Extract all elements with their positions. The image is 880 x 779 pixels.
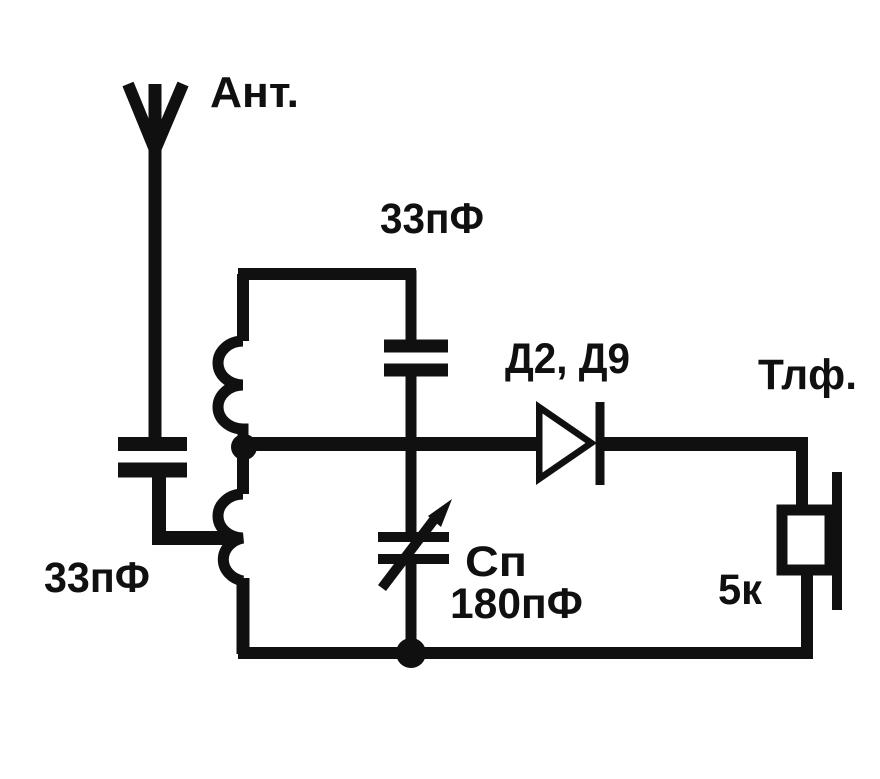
wire: capacitor to coil tap [159, 470, 232, 538]
svg-text:Д2, Д9: Д2, Д9 [505, 335, 630, 383]
svg-text:33пФ: 33пФ [44, 554, 150, 602]
label Сп [465, 538, 527, 586]
headphones Тлф. [782, 472, 837, 610]
wire: right vertical lower [801, 570, 813, 654]
wire: top [238, 268, 416, 280]
wire: variable cap lower lead [406, 560, 417, 655]
wire: bottom [238, 647, 813, 659]
svg-text:33пФ: 33пФ [380, 195, 484, 243]
junction: coil tap node [231, 434, 257, 460]
junction: bottom node [396, 638, 426, 668]
label Ант. [210, 68, 299, 117]
label Тлф. [758, 351, 857, 399]
wire: top cap upper lead [406, 270, 417, 340]
antenna [128, 84, 183, 446]
svg-text:180пФ: 180пФ [450, 580, 583, 628]
svg-text:5к: 5к [718, 566, 762, 614]
wire: right vertical upper [796, 438, 808, 510]
svg-text:Ант.: Ант. [210, 68, 299, 117]
capacitor 33пФ top [384, 346, 448, 370]
label 5к [718, 566, 762, 614]
wire: middle (tap to diode to phones) [244, 437, 536, 451]
wire: top cap to variable cap [406, 370, 417, 533]
diode Д2 Д9 [536, 401, 600, 485]
variable capacitor Сп plates [378, 537, 449, 559]
svg-text:Тлф.: Тлф. [758, 351, 857, 399]
label 180пФ [450, 580, 583, 628]
variable capacitor arrow [382, 499, 452, 588]
inductor coil [218, 274, 243, 654]
capacitor 33пФ antenna series [118, 444, 187, 470]
label Д2, Д9 [505, 335, 630, 383]
label 33пФ top [380, 195, 484, 243]
label 33пФ left [44, 554, 150, 602]
wire: diode to right corner [600, 437, 808, 451]
svg-text:Сп: Сп [465, 538, 527, 586]
